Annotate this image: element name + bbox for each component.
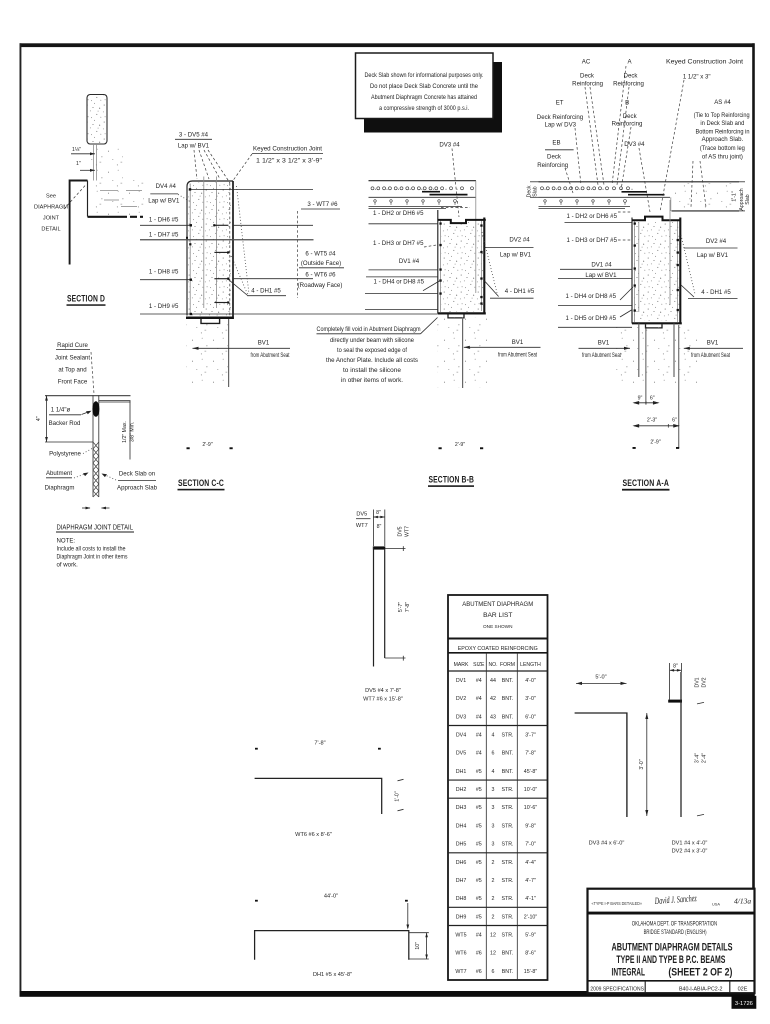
svg-text:DV4: DV4 <box>456 733 466 739</box>
lap bar thick lines <box>422 191 440 193</box>
svg-text:6": 6" <box>650 395 655 401</box>
svg-text:AS #4: AS #4 <box>714 99 731 106</box>
svg-text:(Roadway Face): (Roadway Face) <box>298 282 343 289</box>
group separator <box>448 725 548 727</box>
svg-text:SIZE: SIZE <box>473 662 485 668</box>
svg-text:BNT.: BNT. <box>502 696 513 702</box>
outline left+top with rounded corner <box>187 181 233 316</box>
title block outer <box>588 889 755 994</box>
svg-text:DV1: DV1 <box>695 677 701 687</box>
WT hook bars inside <box>214 224 228 226</box>
svg-text:STR.: STR. <box>501 878 513 884</box>
svg-text:6: 6 <box>492 969 495 975</box>
bar shape L <box>255 778 382 814</box>
svg-text:Approach Slab: Approach Slab <box>117 484 158 491</box>
svg-text:#4: #4 <box>476 678 482 684</box>
rect left edge <box>437 210 439 314</box>
svg-text:STR.: STR. <box>501 823 513 829</box>
svg-text:1 - DH5 or DH9 #5: 1 - DH5 or DH9 #5 <box>566 315 617 322</box>
svg-text:#4: #4 <box>476 933 482 939</box>
svg-text:3: 3 <box>492 805 495 811</box>
approach right bracket ticks <box>739 181 745 183</box>
svg-text:A: A <box>627 58 632 65</box>
svg-text:5'-7": 5'-7" <box>398 602 404 612</box>
svg-text:2'-9": 2'-9" <box>455 442 465 448</box>
svg-text:Slab: Slab <box>533 186 539 196</box>
table outer border <box>448 595 548 980</box>
svg-text:2'-10": 2'-10" <box>524 914 538 920</box>
svg-text:BNT.: BNT. <box>502 769 513 775</box>
svg-text:#6: #6 <box>476 969 482 975</box>
svg-text:Lap w/ BV1: Lap w/ BV1 <box>500 251 532 258</box>
svg-text:2'-9": 2'-9" <box>202 442 212 448</box>
svg-text:DV2: DV2 <box>456 696 466 702</box>
revision box 3-1726 <box>732 996 757 1009</box>
deck bottom rebar circles with ticks <box>374 200 457 205</box>
svg-text:#5: #5 <box>476 842 482 848</box>
svg-text:#4: #4 <box>476 751 482 757</box>
svg-text:Reinforcing: Reinforcing <box>613 80 644 87</box>
note box <box>356 53 494 119</box>
svg-text:44'-0": 44'-0" <box>324 893 338 899</box>
BV1 bar below <box>228 319 230 387</box>
concrete stipple right of joint <box>90 146 123 179</box>
svg-text:1'-1": 1'-1" <box>732 191 738 201</box>
leader line DH6 <box>140 224 191 226</box>
svg-text:BNT.: BNT. <box>502 714 513 720</box>
svg-text:3: 3 <box>492 842 495 848</box>
svg-text:4 - DH1 #5: 4 - DH1 #5 <box>505 288 535 295</box>
svg-text:from Abutment Seat: from Abutment Seat <box>498 352 537 359</box>
svg-text:4 - DH1 #5: 4 - DH1 #5 <box>251 287 281 294</box>
rebar dots <box>439 222 482 304</box>
svg-text:DIAPHRAGM: DIAPHRAGM <box>34 205 68 211</box>
svg-text:3'-0": 3'-0" <box>525 696 536 702</box>
bar shape L <box>575 713 627 817</box>
svg-text:3 - WT7 #6: 3 - WT7 #6 <box>307 201 338 208</box>
svg-text:4": 4" <box>36 416 42 421</box>
dashed joint line <box>441 206 470 208</box>
svg-text:#4: #4 <box>476 696 482 702</box>
svg-text:1 1/2" x 3 1/2" x 3'-9": 1 1/2" x 3 1/2" x 3'-9" <box>256 158 322 165</box>
svg-text:1 - DH7 #5: 1 - DH7 #5 <box>149 232 179 239</box>
svg-text:Keyed Construction Joint: Keyed Construction Joint <box>253 146 322 153</box>
svg-text:#5: #5 <box>476 860 482 866</box>
joint gap vertical lines <box>92 396 94 497</box>
svg-text:4: 4 <box>492 733 495 739</box>
svg-text:Deck: Deck <box>623 113 638 120</box>
svg-text:DV1 #4 x 4'-0": DV1 #4 x 4'-0" <box>672 840 708 846</box>
svg-text:12: 12 <box>490 933 496 939</box>
svg-text:#5: #5 <box>476 878 482 884</box>
svg-text:BNT.: BNT. <box>502 969 513 975</box>
diaphragm concrete body <box>188 183 232 316</box>
svg-text:B40-I-ABIA-PC2-2: B40-I-ABIA-PC2-2 <box>679 986 723 992</box>
svg-text:4: 4 <box>492 769 495 775</box>
svg-text:2: 2 <box>492 860 495 866</box>
svg-text:directly under beam with silic: directly under beam with silicone <box>330 337 415 344</box>
svg-text:to install the silicone: to install the silicone <box>343 367 402 374</box>
diaphragm body stipple <box>634 222 680 321</box>
leader to joint detail note <box>64 184 87 209</box>
svg-text:3 - DV5 #4: 3 - DV5 #4 <box>179 132 209 139</box>
svg-text:1 - DH4 or DH8 #5: 1 - DH4 or DH8 #5 <box>374 279 425 286</box>
svg-text:9'-8": 9'-8" <box>525 823 536 829</box>
svg-text:DV4 #4: DV4 #4 <box>156 183 177 190</box>
svg-text:STR.: STR. <box>501 733 513 739</box>
svg-text:Lap w/ BV1: Lap w/ BV1 <box>178 143 210 150</box>
svg-text:1 - DH8 #5: 1 - DH8 #5 <box>149 268 179 275</box>
svg-text:Reinforcing: Reinforcing <box>537 162 568 169</box>
svg-text:(Tie to Top Reinforcing: (Tie to Top Reinforcing <box>694 112 750 119</box>
svg-text:See: See <box>46 194 56 200</box>
svg-text:10'-0": 10'-0" <box>524 787 538 793</box>
svg-text:in other items of work.: in other items of work. <box>341 377 403 384</box>
svg-text:a compressive strength of 3000: a compressive strength of 3000 p.s.i. <box>379 105 469 112</box>
svg-text:STR.: STR. <box>501 787 513 793</box>
svg-text:Bottom Reinforcing in: Bottom Reinforcing in <box>696 128 750 135</box>
svg-text:1/2" Max.: 1/2" Max. <box>122 421 128 443</box>
svg-text:Diaphragm: Diaphragm <box>45 484 75 491</box>
svg-text:#4: #4 <box>476 733 482 739</box>
svg-text:Joint Sealant: Joint Sealant <box>55 354 91 361</box>
svg-text:DH3: DH3 <box>456 805 467 811</box>
svg-text:2: 2 <box>492 878 495 884</box>
svg-text:BRIDGE STANDARD (ENGLISH): BRIDGE STANDARD (ENGLISH) <box>644 929 707 936</box>
svg-text:7'-8": 7'-8" <box>525 751 536 757</box>
svg-text:#6: #6 <box>476 951 482 957</box>
top edge with keyway <box>438 220 486 223</box>
group separator <box>448 779 548 781</box>
svg-text:1 - DH2 or DH6 #5: 1 - DH2 or DH6 #5 <box>373 210 424 217</box>
top extension tick <box>385 547 406 549</box>
dashed vertical connector <box>297 211 299 298</box>
BV1 bar below <box>462 318 464 389</box>
svg-text:1 - DH2 or DH6 #5: 1 - DH2 or DH6 #5 <box>567 213 618 220</box>
svg-text:7'-0": 7'-0" <box>525 842 536 848</box>
svg-text:(SHEET 2 OF 2): (SHEET 2 OF 2) <box>668 967 732 979</box>
svg-text:DV3 #4 x 6'-0": DV3 #4 x 6'-0" <box>589 840 625 846</box>
svg-text:STR.: STR. <box>501 914 513 920</box>
svg-text:3: 3 <box>492 787 495 793</box>
bottom line <box>45 441 93 443</box>
approach slab bottom <box>672 210 740 212</box>
svg-text:NO.: NO. <box>488 662 497 668</box>
border frame bottom <box>20 991 755 997</box>
right leader vertical <box>407 903 409 928</box>
outline right edge <box>232 181 234 319</box>
svg-text:LENGTH: LENGTH <box>520 662 541 668</box>
svg-text:Reinforcing: Reinforcing <box>572 80 603 87</box>
inner face line <box>189 184 191 314</box>
deck slab soffit thick line <box>88 216 128 218</box>
svg-text:Reinforcing: Reinforcing <box>612 121 643 128</box>
svg-text:Backer Rod: Backer Rod <box>49 420 81 427</box>
svg-text:1⅛": 1⅛" <box>72 147 81 153</box>
svg-text:ABUTMENT DIAPHRAGM: ABUTMENT DIAPHRAGM <box>462 601 533 608</box>
group separator <box>448 906 548 908</box>
svg-text:DH8: DH8 <box>456 896 467 902</box>
approach slab stipple <box>672 183 738 210</box>
svg-text:BV1: BV1 <box>598 339 610 346</box>
svg-text:Deck Slab on: Deck Slab on <box>119 471 155 478</box>
lap bar thick lines <box>622 191 648 193</box>
svg-text:ABUTMENT DIAPHRAGM DETAILS: ABUTMENT DIAPHRAGM DETAILS <box>612 942 733 954</box>
svg-text:43: 43 <box>490 714 496 720</box>
svg-text:Polystyrene: Polystyrene <box>49 450 81 457</box>
svg-text:SECTION D: SECTION D <box>67 294 105 305</box>
svg-text:(Outside Face): (Outside Face) <box>301 260 341 267</box>
svg-text:ONE SHOWN: ONE SHOWN <box>483 624 512 629</box>
deck slab bottom line <box>539 196 671 198</box>
svg-text:WT7 #6 x 15'-8": WT7 #6 x 15'-8" <box>363 696 403 702</box>
svg-text:SECTION A-A: SECTION A-A <box>623 478 670 489</box>
svg-text:42: 42 <box>490 696 496 702</box>
svg-text:(Trace bottom leg: (Trace bottom leg <box>700 145 745 152</box>
deck left bracket ticks <box>530 181 539 183</box>
svg-text:WT7: WT7 <box>405 526 411 537</box>
bar left leg <box>373 546 375 666</box>
inner bars <box>638 222 640 312</box>
svg-text:DV3 #4: DV3 #4 <box>439 141 460 148</box>
svg-text:BV1: BV1 <box>707 339 719 346</box>
svg-text:1 - DH3 or DH7 #5: 1 - DH3 or DH7 #5 <box>373 240 424 247</box>
rect right edge <box>483 218 485 314</box>
svg-text:BAR LIST: BAR LIST <box>483 612 512 619</box>
svg-text:DV5: DV5 <box>456 751 466 757</box>
vertical dim 3'-0" <box>646 713 648 816</box>
main leg <box>680 672 682 817</box>
svg-text:Diaphragm Joint in other items: Diaphragm Joint in other items <box>57 554 128 561</box>
svg-text:BNT.: BNT. <box>502 678 513 684</box>
svg-text:DV2: DV2 <box>702 677 708 687</box>
rect right edge <box>679 218 681 324</box>
svg-text:5'-9": 5'-9" <box>525 933 536 939</box>
svg-text:8": 8" <box>673 663 678 669</box>
long grey line DH7 <box>140 239 314 241</box>
svg-text:DH1 #5 x 45'-8": DH1 #5 x 45'-8" <box>313 972 352 978</box>
dashed leaders <box>585 87 598 185</box>
svg-text:Deck: Deck <box>547 153 562 160</box>
svg-text:DV2 #4 x 3'-0": DV2 #4 x 3'-0" <box>672 849 708 855</box>
svg-text:STR.: STR. <box>501 933 513 939</box>
svg-text:Deck Slab shown for informatio: Deck Slab shown for informational purpos… <box>365 72 484 79</box>
svg-text:6: 6 <box>492 751 495 757</box>
svg-text:Keyed Construction Joint: Keyed Construction Joint <box>666 58 743 65</box>
svg-text:4 - DH1 #5: 4 - DH1 #5 <box>701 289 731 296</box>
top hook <box>669 672 671 700</box>
svg-text:#5: #5 <box>476 805 482 811</box>
svg-text:02E: 02E <box>738 986 748 992</box>
svg-text:DV5: DV5 <box>356 512 367 518</box>
svg-text:4/13a: 4/13a <box>734 897 751 906</box>
svg-text:15'-8": 15'-8" <box>524 969 538 975</box>
svg-text:Include all costs to install t: Include all costs to install the <box>57 546 127 553</box>
deck top rebar circles <box>541 187 630 190</box>
heavy divider line <box>588 912 755 915</box>
svg-text:DH7: DH7 <box>456 878 467 884</box>
vertical bar DV5 b <box>215 177 217 309</box>
svg-text:WT7: WT7 <box>356 523 368 529</box>
keyed construction joint dashed <box>229 183 231 316</box>
bottom thick edge <box>186 316 234 319</box>
leader line DH9 long <box>140 313 438 315</box>
deck top rebar circles <box>371 187 474 190</box>
svg-text:JOINT: JOINT <box>43 216 60 222</box>
bar shape channel <box>255 931 409 960</box>
border frame left <box>20 43 22 992</box>
svg-text:44: 44 <box>490 678 496 684</box>
svg-text:DV5: DV5 <box>398 526 404 536</box>
svg-text:3: 3 <box>492 823 495 829</box>
svg-text:DV5 #4 x 7'-8": DV5 #4 x 7'-8" <box>365 688 401 694</box>
joint filler lines below backwall <box>93 144 95 181</box>
svg-text:MARK: MARK <box>454 662 469 668</box>
svg-text:Completely fill void in Abutme: Completely fill void in Abutment Diaphra… <box>317 326 421 333</box>
svg-text:4'-7": 4'-7" <box>525 878 536 884</box>
svg-text:DH1: DH1 <box>456 769 467 775</box>
deck edge vertical <box>129 401 131 460</box>
svg-text:DV1 #4: DV1 #4 <box>591 261 612 268</box>
svg-text:ET: ET <box>556 99 564 106</box>
rebar dots <box>634 222 679 311</box>
bottom edge with keyway notch <box>632 322 682 324</box>
column lines <box>485 653 487 980</box>
note box shadow <box>364 117 502 133</box>
svg-text:#5: #5 <box>476 769 482 775</box>
svg-text:BNT.: BNT. <box>502 951 513 957</box>
deck soffit double lines <box>369 205 463 207</box>
svg-text:DV1: DV1 <box>456 678 466 684</box>
svg-text:6'-0": 6'-0" <box>525 714 536 720</box>
ticks <box>697 702 704 704</box>
svg-text:at Top and: at Top and <box>58 366 86 373</box>
svg-text:1 - DH4 or DH8 #5: 1 - DH4 or DH8 #5 <box>566 293 617 300</box>
4 inch dim <box>46 396 48 442</box>
svg-text:2'-3": 2'-3" <box>647 417 657 423</box>
diaphragm outline thick L <box>70 181 88 265</box>
svg-text:45'-8": 45'-8" <box>524 769 538 775</box>
border frame right <box>752 43 755 992</box>
svg-text:DIAPHRAGM JOINT DETAIL: DIAPHRAGM JOINT DETAIL <box>57 524 134 531</box>
joint between deck and approach <box>670 197 672 211</box>
dashed fan leaders DV5 <box>194 150 197 179</box>
svg-text:Deck: Deck <box>580 72 595 79</box>
svg-text:9": 9" <box>638 395 643 401</box>
svg-text:from Abutment Seat: from Abutment Seat <box>251 352 290 359</box>
svg-text:12: 12 <box>490 951 496 957</box>
svg-text:BNT.: BNT. <box>502 751 513 757</box>
svg-text:8": 8" <box>376 510 381 516</box>
svg-text:DETAIL: DETAIL <box>41 227 60 233</box>
svg-text:#5: #5 <box>476 787 482 793</box>
deck soffit double lines <box>539 205 631 207</box>
svg-text:1 - DH6 #5: 1 - DH6 #5 <box>149 216 179 223</box>
rebar dots left face <box>189 243 191 245</box>
svg-text:STR.: STR. <box>501 805 513 811</box>
svg-text:EB: EB <box>552 139 560 146</box>
deck right edge into diaphragm <box>475 181 477 293</box>
svg-text:AC: AC <box>582 58 591 65</box>
svg-text:WT6 #6 x 8'-6": WT6 #6 x 8'-6" <box>295 832 332 838</box>
svg-text:3'-4": 3'-4" <box>695 753 701 763</box>
svg-text:2: 2 <box>492 914 495 920</box>
svg-text:10'-6": 10'-6" <box>524 805 538 811</box>
svg-text:3-1726: 3-1726 <box>735 1001 753 1007</box>
svg-text:2: 2 <box>492 896 495 902</box>
svg-text:4'-1": 4'-1" <box>525 896 536 902</box>
svg-text:in Deck Slab and: in Deck Slab and <box>700 120 744 127</box>
svg-text:Lap w/ BV1: Lap w/ BV1 <box>148 198 180 205</box>
abutment stipple below <box>615 327 700 386</box>
svg-text:Do not place Deck Slab Concret: Do not place Deck Slab Concrete until th… <box>370 83 479 90</box>
svg-text:5'-0": 5'-0" <box>595 674 606 680</box>
svg-text:1 1/2" x 3": 1 1/2" x 3" <box>683 73 711 80</box>
rotated dim 1'-0" with ticks <box>398 779 404 781</box>
small joint dim arrows <box>82 507 90 509</box>
svg-text:STR.: STR. <box>501 896 513 902</box>
svg-text:Approach Slab.: Approach Slab. <box>702 136 744 143</box>
svg-text:1 - DH3 or DH7 #5: 1 - DH3 or DH7 #5 <box>567 237 618 244</box>
svg-text:3/8" Min.: 3/8" Min. <box>130 422 136 442</box>
group separator <box>448 797 548 799</box>
backwall concrete block <box>87 95 107 145</box>
BV1 bars below <box>638 324 640 378</box>
svg-text:TYPE II AND TYPE B P.C. BEAMS: TYPE II AND TYPE B P.C. BEAMS <box>616 954 725 966</box>
svg-text:Slab: Slab <box>745 194 751 204</box>
svg-text:#5: #5 <box>476 914 482 920</box>
diaphragm face vertical <box>87 181 89 217</box>
deck slab top line <box>539 181 740 183</box>
bar right leg <box>384 550 386 658</box>
bottom row divider <box>588 980 755 982</box>
svg-text:DV1 #4: DV1 #4 <box>399 258 420 265</box>
bar shape top hook <box>373 546 385 549</box>
svg-text:DV2 #4: DV2 #4 <box>706 238 727 245</box>
group separator <box>448 852 548 854</box>
rect left edge <box>631 218 633 324</box>
svg-text:to seal the exposed edge of: to seal the exposed edge of <box>337 347 407 354</box>
svg-text:6 - WT5 #4: 6 - WT5 #4 <box>305 250 336 257</box>
svg-text:USA: USA <box>712 902 720 907</box>
broken concrete dashes <box>100 190 118 192</box>
backer rod <box>92 401 99 417</box>
svg-text:DH2: DH2 <box>456 787 467 793</box>
svg-text:Lap w/ BV1: Lap w/ BV1 <box>697 252 729 259</box>
svg-text:2009 SPECIFICATIONS: 2009 SPECIFICATIONS <box>590 986 644 992</box>
svg-text:WT6: WT6 <box>455 951 466 957</box>
bottom keyway notch <box>201 319 220 324</box>
border frame top <box>20 43 755 47</box>
deck slab double lines right <box>99 399 131 401</box>
svg-text:SECTION B-B: SECTION B-B <box>429 475 475 486</box>
svg-text:of work.: of work. <box>57 562 79 569</box>
svg-text:from Abutment Seat: from Abutment Seat <box>691 352 730 359</box>
diaphragm body stipple <box>441 221 484 312</box>
svg-text:«TYPE I-P BARS DETAILED»: «TYPE I-P BARS DETAILED» <box>592 901 643 906</box>
deck slab top line <box>369 180 477 182</box>
top surface line <box>45 395 131 397</box>
svg-text:OKLAHOMA DEPT. OF TRANSPORTATI: OKLAHOMA DEPT. OF TRANSPORTATION <box>632 921 718 928</box>
svg-text:Abutment Diaphragm Concrete ha: Abutment Diaphragm Concrete has attained <box>371 94 477 101</box>
svg-text:DV2 #4: DV2 #4 <box>509 236 530 243</box>
svg-text:DV3: DV3 <box>456 714 466 720</box>
svg-text:4'-0": 4'-0" <box>525 678 536 684</box>
svg-text:#4: #4 <box>476 714 482 720</box>
svg-text:EPOXY COATED REINFORCING: EPOXY COATED REINFORCING <box>458 646 538 652</box>
svg-text:BV1: BV1 <box>258 340 270 347</box>
abutment seat stipple <box>186 321 233 387</box>
